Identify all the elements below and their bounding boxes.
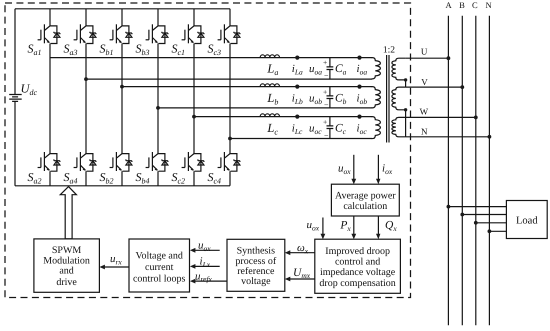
wire leg 2 (phase a right) xyxy=(85,9,87,186)
wire leg 4 (phase b right) xyxy=(157,9,159,186)
signal arrow U_mx from droop to synthesis xyxy=(289,278,315,280)
transformer primary winding phase c xyxy=(372,117,381,139)
signal arrow u_ox into average power xyxy=(353,155,355,180)
signal arrow u_ox into droop block xyxy=(322,218,324,235)
transformer secondary winding 1 xyxy=(392,58,406,80)
SPWM gate-drive hollow arrow xyxy=(60,187,76,239)
DC source Udc battery symbol xyxy=(9,95,22,102)
svg-text:N: N xyxy=(486,0,492,10)
wire secondary interconnect 2 xyxy=(405,110,407,137)
svg-text:drive: drive xyxy=(56,277,77,288)
IGBT Sc1 xyxy=(182,24,204,43)
block SPWM Modulation and drive xyxy=(34,239,100,292)
transformer core xyxy=(387,55,389,143)
junction dots phase c xyxy=(295,115,299,119)
block Voltage and current control loops xyxy=(129,239,190,292)
capacitor Cb xyxy=(327,87,334,108)
junction dots phase a xyxy=(295,56,299,60)
IGBT Sa2 xyxy=(38,152,60,171)
capacitor Cc xyxy=(327,117,334,139)
dashed enclosure of inverter unit xyxy=(5,3,411,298)
IGBT Sb4 xyxy=(146,152,168,171)
svg-text:+: + xyxy=(323,117,327,126)
svg-text:calculation: calculation xyxy=(343,201,387,212)
load box xyxy=(506,201,547,239)
svg-text:+: + xyxy=(323,87,327,96)
signal arrow P_x from average power to droop xyxy=(353,216,355,235)
wire output N xyxy=(406,136,490,138)
wire bus B to load xyxy=(462,214,506,216)
svg-text:C: C xyxy=(472,0,478,10)
wire leg 5 (phase c left) xyxy=(193,9,195,186)
signal arrow u_ox into voltage loop xyxy=(195,249,220,251)
signal arrow i_Lx into voltage loop xyxy=(195,265,220,267)
inductor Lb xyxy=(260,84,279,87)
wire output U xyxy=(406,57,449,59)
IGBT Sa4 xyxy=(74,152,96,171)
IGBT Sa1 xyxy=(38,24,60,43)
IGBT Sb2 xyxy=(110,152,132,171)
junction dots phase b xyxy=(295,85,299,89)
bottom DC bus wire xyxy=(15,185,230,187)
wire phase c top line xyxy=(194,116,372,118)
wire secondary interconnect 1 xyxy=(405,80,407,87)
IGBT Sb1 xyxy=(110,24,132,43)
svg-text:impedance voltage: impedance voltage xyxy=(320,267,396,278)
svg-text:A: A xyxy=(446,0,453,10)
svg-text:B: B xyxy=(459,0,465,10)
svg-text:Load: Load xyxy=(516,215,538,226)
junction dots bus outputs xyxy=(447,56,451,60)
bus line N xyxy=(488,16,490,326)
signal arrow i_ox into average power xyxy=(377,155,379,180)
svg-text:−: − xyxy=(324,101,329,110)
wire battery negative to bottom bus xyxy=(14,101,16,185)
svg-text:Voltage and: Voltage and xyxy=(136,250,183,261)
svg-text:and: and xyxy=(59,265,73,276)
svg-text:1:2: 1:2 xyxy=(383,46,395,56)
wire phase b bottom line xyxy=(158,107,372,109)
wire phase b top line xyxy=(122,86,372,88)
IGBT Sa3 xyxy=(74,24,96,43)
transformer primary winding phase a xyxy=(372,58,381,79)
svg-text:SPWM: SPWM xyxy=(52,245,82,256)
signal arrow u_rx into SPWM xyxy=(104,266,129,268)
svg-text:voltage: voltage xyxy=(241,276,271,287)
svg-text:U: U xyxy=(421,47,428,57)
inductor Lc xyxy=(260,114,279,117)
capacitor Ca xyxy=(327,58,334,80)
svg-text:Improved droop: Improved droop xyxy=(325,246,390,257)
wire battery positive to top bus xyxy=(14,9,16,95)
IGBT Sb3 xyxy=(146,24,168,43)
block Improved droop control and impedance voltage drop compensation xyxy=(315,239,401,293)
wire leg 6 (phase c right) xyxy=(229,9,231,186)
svg-text:W: W xyxy=(420,106,429,116)
transformer secondary winding 2 xyxy=(392,87,406,110)
transformer primary winding phase b xyxy=(372,87,381,108)
wire leg 3 (phase b left) xyxy=(121,9,123,186)
wire output V xyxy=(406,86,463,88)
bus line B xyxy=(461,16,463,326)
IGBT Sc3 xyxy=(218,24,240,43)
wire leg 1 (phase a left) xyxy=(49,9,51,186)
transformer secondary winding 3 xyxy=(392,117,406,136)
svg-text:−: − xyxy=(324,71,329,80)
wire phase c bottom line xyxy=(230,138,372,140)
wire phase a bottom line xyxy=(86,78,372,80)
wire bus N to load xyxy=(489,230,506,232)
signal arrow Q_x from average power to droop xyxy=(377,216,379,235)
svg-text:V: V xyxy=(421,77,428,87)
svg-text:control and: control and xyxy=(335,257,380,268)
wire output W xyxy=(406,116,476,118)
top DC bus wire xyxy=(15,8,230,10)
svg-text:−: − xyxy=(324,131,329,140)
svg-text:Average power: Average power xyxy=(335,191,396,202)
IGBT Sc2 xyxy=(182,152,204,171)
block Average power calculation xyxy=(331,184,399,216)
wire bus A to load xyxy=(448,206,506,208)
svg-text:N: N xyxy=(421,127,428,137)
signal arrow omega_x from droop to synthesis xyxy=(289,252,315,254)
svg-text:current: current xyxy=(145,262,174,273)
signal arrow u_refx from synthesis to voltage loop xyxy=(195,280,227,282)
IGBT Sc4 xyxy=(218,152,240,171)
bus line A xyxy=(447,16,449,326)
bus line C xyxy=(475,16,477,326)
wire phase a top line xyxy=(50,57,372,59)
svg-text:+: + xyxy=(323,58,327,67)
inductor La xyxy=(260,55,279,58)
svg-text:control loops: control loops xyxy=(133,273,186,284)
block Synthesis process of reference voltage xyxy=(227,239,285,291)
wire bus C to load xyxy=(476,222,507,224)
svg-text:drop compensation: drop compensation xyxy=(319,278,395,289)
